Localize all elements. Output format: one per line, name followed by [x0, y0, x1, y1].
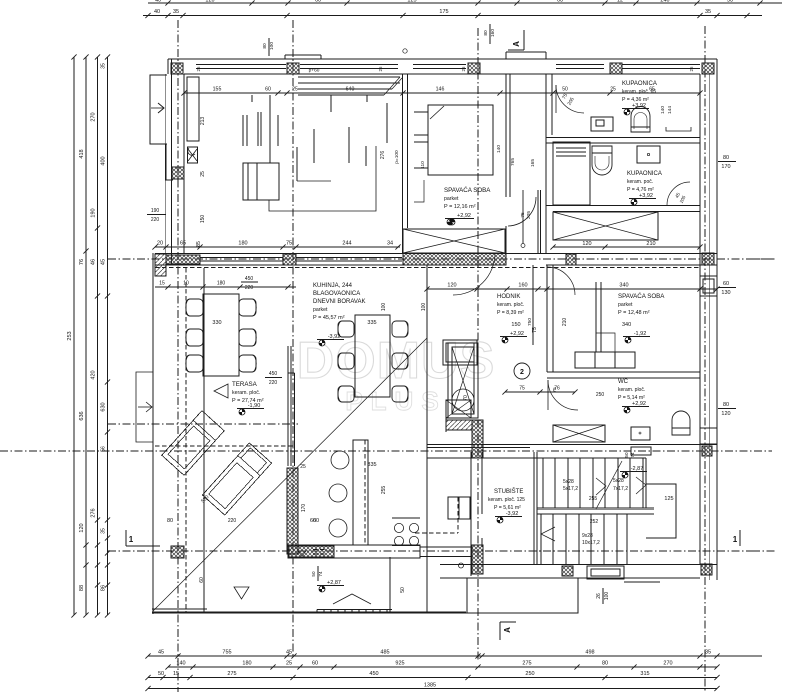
- svg-text:+2,92: +2,92: [632, 401, 646, 407]
- svg-text:75: 75: [520, 212, 526, 218]
- terrace chairs right: [239, 299, 256, 316]
- svg-text:120: 120: [205, 0, 214, 4]
- svg-text:86: 86: [101, 585, 107, 591]
- svg-text:450: 450: [269, 371, 278, 377]
- terrace dining table: [203, 294, 239, 376]
- room1 ceiling drop lines: [251, 95, 253, 102]
- svg-text:9x28: 9x28: [582, 533, 593, 539]
- svg-text:400: 400: [101, 156, 107, 165]
- wc door arc: [548, 380, 578, 410]
- svg-text:BLAGOVAONICA: BLAGOVAONICA: [313, 291, 360, 297]
- svg-text:120: 120: [582, 241, 591, 247]
- svg-text:keram. ploč. 125: keram. ploč. 125: [488, 497, 525, 503]
- right wall window wc: [700, 428, 717, 444]
- svg-text:1385: 1385: [424, 683, 436, 689]
- svg-text:60: 60: [557, 0, 563, 4]
- svg-text:1: 1: [129, 535, 134, 544]
- detail callout 2: [514, 363, 530, 379]
- svg-text:88: 88: [79, 585, 85, 591]
- svg-text:170: 170: [721, 164, 730, 170]
- svg-text:252: 252: [590, 519, 599, 525]
- kupaonica1 sink cabinet: [591, 117, 613, 131]
- stair mid landing: [537, 507, 654, 509]
- sliding door frame upper: [287, 346, 289, 466]
- hodnik dim line y=289: [427, 288, 717, 290]
- bottom dimension line 1: [148, 655, 762, 657]
- room1 wardrobe lines: [242, 115, 244, 146]
- kupaonica2 toilet: [592, 146, 612, 175]
- svg-text:12: 12: [617, 0, 623, 4]
- corridor cabinet: [448, 497, 470, 519]
- svg-text:255: 255: [589, 496, 598, 502]
- svg-text:keram. ploč.: keram. ploč.: [232, 390, 260, 396]
- svg-text:+2,92: +2,92: [510, 331, 524, 337]
- svg-text:74: 74: [318, 571, 323, 577]
- wc table: [631, 427, 650, 440]
- wc sink: [631, 447, 651, 455]
- left dimension line 4: [107, 57, 109, 615]
- left closet in room1: [187, 77, 199, 141]
- svg-text:80: 80: [167, 518, 173, 524]
- svg-text:175: 175: [439, 9, 448, 15]
- bathroom wall x=546: [545, 74, 547, 253]
- stair bottom wall: [440, 564, 717, 566]
- svg-text:270: 270: [91, 112, 97, 121]
- svg-text:750: 750: [527, 318, 533, 326]
- right wall window bedroom2: [700, 276, 717, 296]
- bottom dimension line 2: [168, 666, 717, 668]
- shaft box: [448, 343, 478, 418]
- wc closet X: [553, 425, 605, 442]
- svg-text:-3,92: -3,92: [506, 511, 519, 517]
- shaft hatch walls: [446, 420, 472, 430]
- dim 120 210 below closet: [553, 246, 700, 248]
- svg-text:35: 35: [705, 650, 711, 656]
- svg-text:765: 765: [510, 158, 516, 166]
- window band above bedroom: [298, 76, 400, 78]
- svg-text:170: 170: [301, 504, 307, 513]
- living wall x=427 edge: [426, 265, 428, 452]
- axis line vertical x=478: [477, 28, 479, 662]
- svg-text:100: 100: [381, 303, 387, 312]
- top wall masonry piers: [171, 63, 183, 74]
- wall bedroom right x=506: [505, 74, 507, 197]
- axis line vertical x=178: [177, 20, 179, 692]
- hodnik level: [505, 337, 508, 340]
- left dimension line 2: [85, 57, 87, 615]
- svg-text:5x17,2: 5x17,2: [563, 486, 578, 492]
- svg-text:34: 34: [387, 241, 393, 247]
- svg-text:220: 220: [228, 518, 237, 524]
- kitchen vertical dim 276: [386, 103, 388, 143]
- stair upper flight treads: [542, 458, 544, 508]
- svg-text:213: 213: [200, 117, 206, 126]
- room1 desk: [243, 163, 279, 200]
- svg-text:65: 65: [649, 87, 655, 93]
- svg-text:80: 80: [602, 661, 608, 667]
- svg-text:60: 60: [315, 0, 321, 4]
- svg-text:15: 15: [173, 671, 179, 677]
- entry steps: [587, 566, 624, 579]
- bedroom2 level: [628, 337, 631, 340]
- svg-text:418: 418: [79, 149, 85, 158]
- roof edge above top wall: [285, 54, 321, 56]
- wall room1/bedroom x=403: [402, 74, 404, 253]
- big diagonal line: [153, 338, 427, 611]
- svg-text:74: 74: [630, 452, 635, 458]
- svg-text:26: 26: [596, 593, 602, 599]
- svg-text:50: 50: [562, 87, 568, 93]
- svg-text:335: 335: [367, 462, 376, 468]
- dining chairs right: [392, 321, 408, 337]
- svg-text:150: 150: [511, 322, 520, 328]
- terrace chairs left: [186, 299, 203, 316]
- closet x-box below bathroom2: [553, 212, 658, 240]
- svg-text:210: 210: [646, 241, 655, 247]
- svg-text:25: 25: [300, 464, 306, 470]
- svg-text:130: 130: [721, 290, 730, 296]
- svg-text:25: 25: [689, 66, 694, 72]
- svg-text:45: 45: [158, 650, 164, 656]
- kupaonica2 shelf room: [553, 142, 590, 205]
- mid wall pier a: [283, 254, 296, 265]
- level entry: [625, 472, 628, 475]
- svg-text:46: 46: [91, 259, 97, 265]
- svg-text:120: 120: [721, 411, 730, 417]
- stair lower flight treads: [540, 514, 542, 564]
- mid wall dashed overhang: [155, 267, 700, 269]
- svg-text:2: 2: [520, 369, 524, 376]
- svg-text:25: 25: [610, 87, 616, 93]
- svg-text:50: 50: [158, 671, 164, 677]
- axis line horizontal y=551: [108, 550, 752, 552]
- svg-text:76: 76: [79, 259, 85, 265]
- svg-text:75: 75: [552, 387, 558, 393]
- wc level: [627, 407, 630, 410]
- svg-text:20: 20: [157, 241, 163, 247]
- wc door dim line: [505, 391, 575, 393]
- wc toilet: [672, 411, 690, 435]
- svg-text:50: 50: [400, 587, 406, 593]
- top dimension line 1: [148, 2, 782, 4]
- terrace paving strip: [317, 609, 392, 611]
- bathroom1 mid wall y=135: [546, 137, 700, 139]
- hall wall x=533: [532, 265, 534, 345]
- svg-text:60: 60: [310, 518, 316, 524]
- svg-text:275: 275: [522, 661, 531, 667]
- svg-text:DNEVNI BORAVAK: DNEVNI BORAVAK: [313, 299, 365, 305]
- bedroom bed: [428, 105, 493, 175]
- kitchen counter vertical: [353, 440, 368, 545]
- svg-text:255: 255: [381, 486, 387, 495]
- radiator symbol: [188, 147, 198, 163]
- svg-text:p+60: p+60: [309, 68, 320, 74]
- svg-text:80: 80: [723, 402, 729, 408]
- svg-text:25: 25: [196, 66, 201, 72]
- bedroom2 desk lines: [595, 282, 597, 352]
- svg-text:keram. ploč.: keram. ploč.: [618, 387, 645, 393]
- mid wall hatch left: [166, 255, 200, 264]
- svg-text:P = 45,57 m²: P = 45,57 m²: [313, 315, 345, 321]
- svg-text:35: 35: [101, 528, 107, 534]
- axis line vertical x=705: [704, 26, 706, 692]
- svg-text:270: 270: [663, 661, 672, 667]
- svg-text:keram. poč.: keram. poč.: [627, 179, 653, 185]
- towel rail: [666, 127, 691, 131]
- svg-text:240: 240: [660, 0, 669, 4]
- svg-text:150: 150: [200, 215, 206, 224]
- stair up diagonal: [596, 461, 622, 509]
- left dimension line 1: [73, 57, 75, 615]
- svg-text:60: 60: [265, 87, 271, 93]
- svg-text:A: A: [512, 41, 521, 47]
- mid wall bottom line: [155, 264, 505, 266]
- svg-text:+3,92: +3,92: [639, 193, 653, 199]
- stair direction chevrons: [541, 527, 555, 541]
- kupaonica2 level: [634, 199, 637, 202]
- svg-text:160: 160: [490, 29, 496, 37]
- door arc living: [453, 253, 495, 295]
- mid wall window terrace door: [296, 257, 402, 259]
- svg-text:HODNIK: HODNIK: [497, 294, 520, 300]
- kitchen counter bottom: [288, 545, 420, 558]
- svg-text:120: 120: [79, 523, 85, 532]
- svg-text:p=100: p=100: [394, 150, 400, 164]
- svg-text:315: 315: [640, 671, 649, 677]
- small circle mark top: [403, 49, 407, 53]
- svg-text:636: 636: [79, 411, 85, 420]
- bottom dimension line 3: [148, 677, 717, 679]
- level marker room1: [450, 219, 453, 222]
- top exterior wall: [168, 58, 717, 60]
- svg-text:SPAVAĆA SOBA: SPAVAĆA SOBA: [618, 293, 665, 300]
- svg-text:60: 60: [199, 577, 205, 583]
- svg-text:STUBIŠTE: STUBIŠTE: [494, 488, 523, 495]
- svg-text:640: 640: [346, 87, 355, 93]
- svg-text:205: 205: [526, 211, 532, 219]
- kupaonica2 shower: [637, 146, 660, 163]
- svg-text:190: 190: [91, 208, 97, 217]
- svg-text:630: 630: [101, 402, 107, 411]
- svg-text:80: 80: [723, 155, 729, 161]
- corridor bottom wall: [420, 546, 471, 548]
- svg-text:56: 56: [101, 446, 107, 452]
- svg-text:5x28: 5x28: [563, 479, 574, 485]
- svg-text:SPAVAĆA SOBA: SPAVAĆA SOBA: [444, 187, 491, 194]
- lounger 2: [202, 443, 271, 515]
- svg-text:45: 45: [101, 259, 107, 265]
- svg-text:WC: WC: [618, 379, 629, 385]
- kupaonica1 toilet: [631, 107, 650, 133]
- interior dim line y=93: [184, 92, 700, 94]
- svg-text:250: 250: [596, 392, 605, 398]
- svg-text:244: 244: [342, 241, 351, 247]
- entry door circle: [459, 563, 464, 568]
- svg-text:220: 220: [269, 380, 278, 386]
- bedroom closet with X: [403, 229, 505, 253]
- svg-text:340: 340: [622, 322, 631, 328]
- stair left wall: [533, 452, 535, 564]
- svg-text:25: 25: [461, 66, 466, 72]
- svg-text:450: 450: [369, 671, 378, 677]
- svg-text:180: 180: [217, 281, 226, 287]
- svg-text:450: 450: [245, 276, 254, 282]
- svg-text:144: 144: [667, 106, 673, 114]
- paving strip edge line: [389, 557, 391, 613]
- svg-text:P = 12,48 m²: P = 12,48 m²: [618, 310, 650, 316]
- svg-text:80: 80: [483, 30, 489, 36]
- mid wall masonry band: [403, 254, 506, 266]
- svg-text:50: 50: [311, 571, 316, 577]
- terrace dashed overhang v: [185, 268, 187, 612]
- svg-text:parket: parket: [313, 307, 328, 313]
- svg-text:60: 60: [723, 281, 729, 287]
- svg-text:TERASA: TERASA: [232, 381, 258, 388]
- svg-text:-2,87: -2,87: [631, 466, 644, 472]
- svg-text:5x28: 5x28: [613, 478, 624, 484]
- stair open well right: [646, 484, 676, 538]
- top dimension line 2: [143, 15, 762, 17]
- svg-text:80: 80: [262, 43, 268, 49]
- top wall window sills: [196, 64, 286, 66]
- level marker porch center: [322, 586, 325, 589]
- sliding door hatch: [287, 468, 298, 554]
- svg-text:250: 250: [525, 671, 534, 677]
- svg-text:25: 25: [292, 87, 298, 93]
- terrace dim line y=287: [155, 286, 296, 288]
- svg-text:35: 35: [101, 63, 107, 69]
- svg-text:50: 50: [624, 452, 629, 458]
- svg-text:755: 755: [222, 650, 231, 656]
- svg-text:35: 35: [173, 9, 179, 15]
- svg-text:253: 253: [67, 331, 73, 340]
- svg-text:A: A: [503, 627, 512, 633]
- room1 sofa group lines: [296, 147, 298, 181]
- terrace dashed overhang h: [155, 445, 293, 447]
- svg-text:180: 180: [238, 241, 247, 247]
- svg-text:330: 330: [212, 320, 221, 326]
- svg-text:75: 75: [286, 241, 292, 247]
- axis extension marks right: [752, 258, 776, 260]
- left dim lower ticks: [95, 517, 100, 522]
- bath dim line y=93 right: [550, 90, 555, 95]
- svg-text:925: 925: [395, 661, 404, 667]
- svg-text:220: 220: [245, 285, 254, 291]
- svg-text:276: 276: [91, 508, 97, 517]
- bottom dimension line 4: [148, 688, 717, 690]
- svg-text:25: 25: [378, 66, 383, 72]
- svg-text:190: 190: [151, 208, 160, 214]
- svg-text:160: 160: [518, 283, 527, 289]
- svg-text:75: 75: [519, 386, 525, 392]
- porch triangle: [333, 594, 371, 604]
- svg-text:7x17,2: 7x17,2: [613, 486, 628, 492]
- svg-text:220: 220: [151, 217, 160, 223]
- right exterior wall: [716, 59, 718, 580]
- svg-text:PLUS: PLUS: [345, 386, 446, 416]
- svg-text:parket: parket: [444, 196, 459, 202]
- svg-text:340: 340: [619, 283, 628, 289]
- svg-text:DOMUS: DOMUS: [297, 332, 496, 390]
- svg-text:+2,87: +2,87: [327, 580, 341, 586]
- svg-text:100: 100: [269, 42, 275, 50]
- svg-text:10x17,2: 10x17,2: [582, 540, 600, 546]
- svg-text:25: 25: [200, 171, 206, 177]
- svg-text:KUPAONICA: KUPAONICA: [627, 171, 662, 177]
- svg-text:180: 180: [242, 661, 251, 667]
- svg-text:276: 276: [380, 151, 386, 160]
- svg-text:-1,90: -1,90: [248, 403, 261, 409]
- kitchen hob circles: [394, 523, 403, 532]
- svg-text:50: 50: [727, 0, 733, 4]
- living level marker: [322, 340, 325, 343]
- svg-text:140: 140: [496, 145, 502, 153]
- svg-text:125: 125: [664, 496, 673, 502]
- svg-text:40: 40: [155, 0, 161, 4]
- bedroom door leaf and arc: [522, 190, 524, 243]
- svg-text:-3,92: -3,92: [328, 334, 341, 340]
- svg-text:335: 335: [367, 320, 376, 326]
- terrace bottom edge: [152, 611, 466, 613]
- svg-text:60: 60: [312, 661, 318, 667]
- svg-text:485: 485: [380, 650, 389, 656]
- niche arrow: [151, 107, 164, 109]
- door arc bathroom2 corner: [667, 182, 690, 205]
- svg-text:420: 420: [91, 370, 97, 379]
- svg-text:40: 40: [154, 9, 160, 15]
- svg-text:146: 146: [436, 87, 445, 93]
- kitchen bar circles: [331, 451, 349, 469]
- dining table: [355, 315, 390, 397]
- lounger 1: [162, 411, 224, 476]
- wc right wall x=471-482: [470, 452, 472, 576]
- svg-text:155: 155: [213, 87, 222, 93]
- svg-text:140: 140: [176, 661, 185, 667]
- svg-text:110: 110: [420, 161, 426, 169]
- svg-text:25: 25: [286, 661, 292, 667]
- svg-text:85: 85: [196, 241, 202, 247]
- stair west edge x=427: [426, 452, 428, 613]
- bathroom2 bottom wall y=205: [546, 205, 700, 207]
- axis line horizontal y=259: [108, 258, 772, 260]
- axis line horizontal y=424 terrace: [108, 423, 298, 425]
- svg-text:1: 1: [733, 535, 738, 544]
- terrace column pier: [171, 546, 184, 558]
- bedroom bed side marks: [414, 111, 428, 113]
- svg-text:-1,92: -1,92: [634, 331, 647, 337]
- right wall masonry piers: [702, 253, 714, 265]
- svg-text:keram. ploč.: keram. ploč.: [497, 302, 524, 308]
- small triangle down: [234, 587, 249, 599]
- svg-text:45: 45: [286, 650, 292, 656]
- terrace triangle mark: [214, 384, 228, 398]
- svg-text:120: 120: [447, 283, 456, 289]
- mid wall top line: [155, 253, 717, 255]
- hall door arc top: [556, 85, 584, 113]
- door arc hall-bedroom2: [547, 267, 575, 295]
- terrace left edge: [152, 253, 154, 614]
- bedroom2 walls: [546, 265, 548, 372]
- svg-text:275: 275: [227, 671, 236, 677]
- left wall piers: [172, 167, 184, 179]
- svg-text:15: 15: [159, 281, 165, 287]
- bedroom2 cabinet row: [575, 352, 635, 368]
- svg-text:KUHINJA, 244: KUHINJA, 244: [313, 283, 353, 289]
- svg-text:125: 125: [407, 0, 416, 4]
- stair top wall y=445: [427, 444, 717, 446]
- svg-text:65: 65: [180, 241, 186, 247]
- dim line above mid wall: [155, 246, 400, 248]
